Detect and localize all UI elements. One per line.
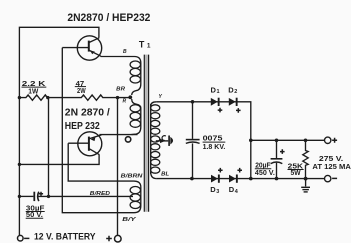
svg-text:T: T: [139, 40, 145, 50]
svg-text:4: 4: [235, 189, 239, 195]
svg-text:BL: BL: [161, 172, 169, 178]
svg-text:1.8 KV.: 1.8 KV.: [203, 142, 226, 151]
svg-text:1W: 1W: [28, 89, 38, 96]
svg-text:2N2870 / HEP232: 2N2870 / HEP232: [67, 12, 150, 24]
svg-text:1: 1: [147, 43, 151, 50]
svg-text:HEP 232: HEP 232: [65, 120, 100, 132]
svg-text:2N 2870 /: 2N 2870 /: [65, 106, 110, 118]
svg-text:Y: Y: [159, 94, 163, 100]
svg-text:AT 125 MA: AT 125 MA: [312, 162, 351, 171]
svg-text:B/Y: B/Y: [122, 217, 137, 223]
svg-text:R: R: [123, 98, 127, 104]
svg-text:B/BRN: B/BRN: [121, 173, 144, 179]
svg-text:2: 2: [234, 89, 237, 95]
svg-text:2W: 2W: [77, 88, 86, 95]
svg-text:50 V.: 50 V.: [26, 212, 43, 219]
svg-text:5W: 5W: [291, 170, 301, 177]
svg-text:450 V.: 450 V.: [255, 170, 275, 177]
svg-text:1: 1: [217, 89, 220, 95]
svg-text:12 V. BATTERY: 12 V. BATTERY: [34, 232, 96, 242]
svg-text:B/RED: B/RED: [90, 191, 110, 197]
svg-text:3: 3: [216, 189, 219, 195]
svg-text:BR: BR: [116, 87, 125, 93]
svg-text:B: B: [123, 49, 127, 55]
